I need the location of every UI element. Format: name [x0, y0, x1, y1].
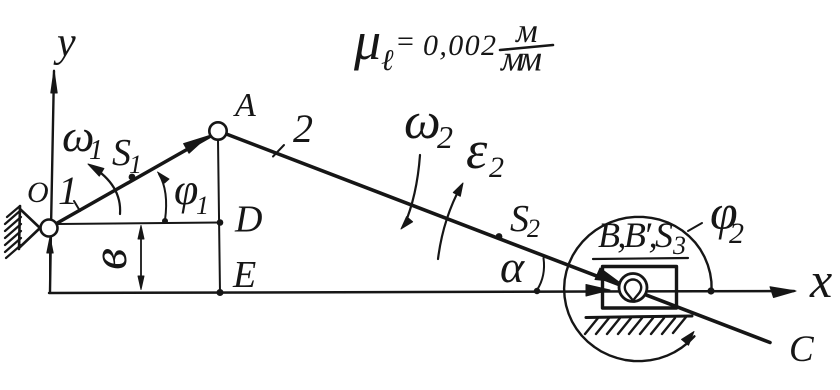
svg-text:2: 2: [489, 151, 504, 184]
junction dot on x axis: [707, 287, 714, 294]
svg-text:B,B′,S: B,B′,S: [598, 215, 673, 255]
svg-text:2: 2: [293, 106, 313, 151]
angular velocity omega2 arc arrow: [404, 155, 420, 226]
svg-text:x: x: [809, 252, 832, 308]
svg-text:A: A: [233, 87, 256, 124]
svg-text:1: 1: [89, 135, 103, 166]
svg-text:ε: ε: [466, 120, 488, 180]
angle phi1 arc: [159, 174, 166, 220]
svg-text:2: 2: [527, 214, 540, 243]
link 2: [225, 134, 770, 343]
link 1: [52, 133, 216, 226]
x axis arrowhead: [770, 287, 796, 298]
offset dimension double arrow: [140, 229, 142, 286]
svg-text:1: 1: [196, 191, 209, 220]
svg-text:в: в: [81, 248, 137, 270]
phi2 leader tick: [688, 223, 702, 231]
fixed support wall at O: [19, 206, 20, 249]
y axis arrowhead: [51, 70, 57, 93]
big phi2 circle arc: [564, 217, 712, 361]
slider guide block: [603, 267, 677, 309]
svg-text:μ: μ: [353, 11, 381, 71]
vertical arrow up to O from x axis: [49, 240, 51, 292]
svg-text:=: =: [397, 25, 414, 58]
svg-text:E: E: [232, 254, 256, 296]
node D dot: [217, 219, 224, 226]
svg-text:y: y: [53, 20, 76, 66]
phi2 arc arrowhead: [682, 332, 695, 346]
svg-text:ℓ: ℓ: [381, 44, 394, 77]
center of mass S2 dot: [496, 233, 503, 240]
pin joint B outer circle: [619, 274, 647, 302]
joint O: [41, 220, 58, 237]
svg-text:α: α: [500, 241, 525, 292]
center of mass S1 dot: [129, 174, 136, 181]
svg-text:φ: φ: [174, 165, 198, 214]
angular acceleration eps2 arc arrow: [438, 186, 461, 259]
horizontal line O to D: [58, 223, 220, 225]
angular velocity omega1 arc arrow: [91, 166, 120, 214]
ground line under slider: [586, 316, 692, 318]
joint A: [209, 122, 226, 139]
vertical line A to E: [218, 140, 220, 293]
svg-text:D: D: [234, 199, 262, 241]
angle alpha arc: [537, 258, 544, 290]
link 2 arrowhead at slider pin: [595, 268, 619, 282]
svg-text:2: 2: [729, 217, 744, 250]
node E dot on x axis: [217, 289, 224, 296]
svg-text:1: 1: [129, 150, 142, 179]
svg-text:0,002: 0,002: [423, 29, 496, 62]
svg-text:1: 1: [58, 168, 78, 213]
support hatching: [5, 206, 21, 258]
x axis arrowhead at slider pin: [586, 285, 610, 297]
svg-text:ω: ω: [404, 93, 441, 150]
svg-text:C: C: [789, 329, 815, 370]
svg-text:2: 2: [437, 119, 453, 155]
pin joint B inner drop: [625, 280, 641, 301]
y axis: [50, 71, 54, 292]
link 1 arrowhead: [184, 136, 208, 153]
svg-text:мм: мм: [499, 39, 542, 79]
svg-text:3: 3: [672, 231, 686, 260]
underline: [593, 258, 688, 259]
x axis: [49, 291, 794, 293]
ground hatching: [585, 317, 686, 334]
svg-text:O: O: [27, 176, 49, 209]
fixed support triangle: [20, 209, 40, 247]
